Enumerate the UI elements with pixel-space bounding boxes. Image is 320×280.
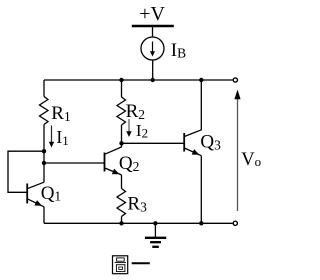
svg-text:Q3: Q3 bbox=[200, 132, 221, 153]
ground bar 2 bbox=[150, 241, 161, 243]
transistor Q2 emitter bbox=[105, 168, 122, 175]
junction dot Q3 emitter bottom bbox=[199, 221, 203, 225]
svg-text:+V: +V bbox=[139, 3, 165, 25]
output terminal top open circle bbox=[233, 78, 237, 82]
junction dot R2 bottom node bbox=[119, 141, 123, 145]
caption glyph 一 bbox=[132, 262, 150, 264]
wire R3 bottom bbox=[121, 217, 123, 224]
svg-text:R1: R1 bbox=[51, 103, 70, 124]
ground stem bbox=[154, 223, 156, 238]
svg-text:Vo: Vo bbox=[241, 150, 261, 170]
transistor Q3 base bar bbox=[183, 133, 185, 152]
svg-text:Q1: Q1 bbox=[41, 183, 61, 204]
resistor R2 bbox=[117, 97, 126, 125]
svg-text:Q2: Q2 bbox=[119, 153, 139, 174]
transistor Q3 emitter bbox=[184, 148, 201, 156]
current source IB circle bbox=[141, 37, 164, 60]
+V supply bar bbox=[132, 25, 174, 28]
svg-text:R3: R3 bbox=[127, 194, 147, 215]
transistor Q3 collector bbox=[184, 80, 201, 137]
output arrow Vo bbox=[237, 99, 239, 212]
junction dot current source bbox=[151, 78, 155, 82]
wire R1 bottom bbox=[43, 125, 45, 183]
resistor R1 bbox=[40, 97, 49, 125]
junction dot Q3 collector top bbox=[199, 78, 203, 82]
wire Q2 emitter to R3 bbox=[121, 175, 123, 189]
wire Q2 base bbox=[44, 162, 105, 164]
wire Q1 emitter down bbox=[43, 207, 45, 224]
transistor Q2 collector bbox=[105, 143, 122, 154]
current arrow I2 bbox=[128, 119, 130, 132]
caption glyph 圖 bbox=[113, 256, 128, 274]
output terminal bottom open circle bbox=[233, 221, 237, 225]
wire current source to top rail bbox=[152, 60, 154, 80]
transistor Q1 collector bbox=[27, 182, 44, 189]
wire supply bar to current source bbox=[152, 26, 154, 37]
junction dot ground bbox=[153, 221, 157, 225]
junction dot R2 top bbox=[119, 78, 123, 82]
transistor Q1 emitter bbox=[27, 199, 44, 207]
transistor Q1 base bar bbox=[26, 184, 28, 204]
resistor R3 bbox=[117, 189, 126, 217]
ground bar 1 bbox=[145, 237, 166, 239]
bottom rail wire bbox=[44, 222, 233, 224]
svg-text:IB: IB bbox=[171, 40, 186, 61]
feedback wire to Q1 base bbox=[8, 151, 44, 192]
svg-text:I1: I1 bbox=[56, 127, 68, 148]
transistor Q2 base bar bbox=[104, 153, 106, 172]
wire R2 bottom bbox=[121, 125, 123, 143]
ground bar 3 bbox=[152, 246, 159, 248]
current source arrow bbox=[152, 42, 154, 52]
current arrow I1 bbox=[51, 126, 53, 143]
wire R1 top bbox=[43, 80, 45, 97]
wire Q3 emitter down bbox=[200, 156, 202, 224]
svg-text:I2: I2 bbox=[136, 121, 148, 141]
top rail wire bbox=[44, 79, 233, 81]
junction dot Q2 base tap bbox=[42, 161, 46, 165]
junction dot feedback tap bbox=[42, 149, 46, 153]
wire R2 top bbox=[121, 80, 123, 97]
junction dot R3 bottom bbox=[119, 221, 123, 225]
wire Q3 base bbox=[122, 142, 185, 144]
